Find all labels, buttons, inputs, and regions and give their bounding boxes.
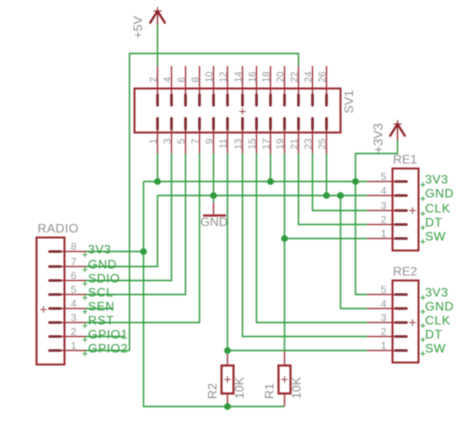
svg-text:1: 1: [71, 341, 77, 352]
svg-text:SEN: SEN: [88, 299, 115, 313]
RADIO pin 8: [50, 250, 87, 253]
svg-text:17: 17: [261, 139, 272, 150]
SV1 pin 18 (top): [270, 66, 272, 105]
wire RE1 CLK net from pin 23: [313, 154, 368, 211]
net label SCL (RADIO): [83, 285, 114, 300]
junction pin1/3V3 rail: [154, 178, 161, 185]
svg-text:4: 4: [381, 186, 387, 197]
wire GPIO25 top rail: [130, 54, 299, 351]
wire pin17 3V3 drop: [270, 154, 272, 182]
svg-text:14: 14: [233, 71, 244, 82]
svg-text:4: 4: [162, 77, 173, 83]
wire pin9 GND drop to ground: [213, 154, 215, 203]
svg-text:GND: GND: [425, 299, 454, 313]
SV1 pin 9 (bottom): [213, 118, 215, 153]
SV1 pin 23 (bottom): [312, 118, 314, 153]
SV1 pin 2 (top): [157, 66, 159, 105]
svg-text:23: 23: [303, 138, 314, 149]
net label DT (RE1): [420, 215, 442, 230]
svg-text:CLK: CLK: [425, 201, 451, 215]
RADIO pin 1: [50, 349, 87, 352]
RADIO pin 5: [50, 293, 87, 296]
SV1 pin 26 (top): [326, 66, 328, 105]
svg-text:5: 5: [381, 285, 387, 296]
svg-text:3: 3: [381, 313, 387, 324]
svg-text:7: 7: [71, 257, 77, 268]
wire RE2 3V3 branch: [356, 182, 368, 295]
wire RE2 DT net from pin 13: [243, 154, 368, 337]
symbol origin cross SV1: [239, 108, 246, 115]
SV1 pin 17 (bottom): [270, 118, 272, 153]
svg-text:3V3: 3V3: [88, 242, 111, 256]
junction pin9/GND rail: [210, 192, 217, 199]
SV1 pin 25 (bottom): [326, 118, 328, 153]
RE1 pin 4: [367, 194, 407, 197]
svg-text:+3V3: +3V3: [370, 123, 385, 153]
svg-text:SW: SW: [425, 229, 446, 243]
wire RE2 CLK net from pin 15: [257, 154, 368, 323]
SV1 pin 7 (bottom): [199, 118, 201, 153]
net label 3V3 (RE1): [420, 172, 448, 187]
svg-text:8: 8: [71, 242, 77, 253]
net label GND (RE2): [420, 299, 454, 314]
svg-text:RE2: RE2: [393, 265, 417, 279]
RE1 pin 1: [367, 237, 407, 240]
SV1 pin 14 (top): [242, 66, 244, 105]
SV1 pin 12 (top): [227, 66, 229, 105]
connector RE2 box: [393, 281, 419, 363]
wire RADIO RST net: [86, 154, 200, 323]
net label RST (RADIO): [83, 313, 115, 328]
svg-text:3: 3: [162, 138, 173, 144]
svg-text:9: 9: [204, 138, 215, 144]
junction pin11/RE2 SW/R2: [224, 347, 231, 354]
RADIO pin 3: [50, 321, 87, 324]
SV1 pin 19 (bottom): [284, 118, 286, 153]
RE2 pin 2: [367, 335, 407, 338]
resistor R2 body: [222, 351, 234, 406]
symbol origin cross R1: [281, 376, 287, 382]
svg-text:16: 16: [247, 71, 258, 82]
wire RADIO SDIO net: [86, 154, 172, 281]
net label 3V3 (RADIO): [83, 242, 112, 257]
svg-text:1: 1: [148, 138, 159, 144]
svg-text:1: 1: [381, 341, 387, 352]
svg-text:10: 10: [204, 71, 215, 82]
junction pin25/GND rail: [323, 192, 330, 199]
RE1 pin 2: [367, 223, 407, 226]
RADIO pin 4: [50, 307, 87, 310]
wire RE2 SW net from pin 11: [227, 154, 229, 351]
RE2 pin 3: [367, 321, 407, 324]
svg-text:6: 6: [176, 77, 187, 83]
svg-text:RST: RST: [88, 313, 114, 327]
SV1 pin 10 (top): [213, 66, 215, 105]
net label CLK (RE2): [420, 313, 450, 328]
wire RADIO SEN stub: [86, 308, 112, 310]
wire +3V3 to 3V3 rail: [356, 141, 398, 182]
wire RE2 SW horizontal: [228, 350, 368, 352]
svg-text:DT: DT: [425, 215, 442, 229]
junction GND rail/RE2 GND: [337, 192, 344, 199]
RE2 pin 5: [367, 293, 407, 296]
svg-text:2: 2: [71, 327, 77, 338]
wire RE1 SW net from pin 19: [284, 154, 286, 352]
wire +5V vertical to pin 2: [157, 25, 159, 67]
svg-text:R2: R2: [206, 383, 220, 399]
svg-text:3V3: 3V3: [425, 285, 448, 299]
junction +3V3/3V3 rail: [352, 178, 359, 185]
svg-text:2: 2: [381, 327, 387, 338]
svg-text:25: 25: [317, 138, 328, 149]
connector RE1 box: [393, 169, 419, 251]
wire pin1 3V3 drop: [157, 154, 159, 182]
svg-text:19: 19: [275, 138, 286, 149]
SV1 pin 5 (bottom): [185, 118, 187, 153]
symbol origin cross RE1: [409, 207, 416, 214]
svg-text:20: 20: [275, 71, 286, 82]
net label 3V3 (RE2): [420, 285, 448, 300]
RE1 pin 5: [367, 180, 407, 183]
net label GPIO1 (RADIO): [83, 327, 129, 342]
power +3V3 symbol P+2: [390, 120, 406, 141]
wire RE1 DT net from pin 21: [299, 154, 368, 225]
svg-text:5: 5: [71, 285, 77, 296]
svg-text:GND: GND: [200, 215, 228, 229]
wire RADIO GPIO1 stub: [86, 336, 124, 338]
SV1 pin 20 (top): [284, 66, 286, 105]
svg-text:3: 3: [71, 313, 77, 324]
symbol origin cross R2: [224, 376, 230, 382]
net label DT (RE2): [420, 327, 442, 342]
connector SV1 box: [135, 89, 341, 133]
svg-text:26: 26: [317, 71, 328, 82]
svg-text:DT: DT: [425, 327, 442, 341]
svg-text:CLK: CLK: [425, 313, 451, 327]
RADIO pin 6: [50, 279, 87, 282]
svg-text:RADIO: RADIO: [38, 221, 79, 235]
wire RE2 GND branch: [341, 196, 368, 309]
SV1 pin 21 (bottom): [298, 118, 300, 153]
svg-text:5: 5: [381, 172, 387, 183]
net label SEN (RADIO): [83, 299, 115, 314]
wire RADIO GPIO2 net: [86, 350, 130, 352]
RADIO pin 2: [50, 335, 87, 338]
SV1 pin 3 (bottom): [171, 118, 173, 153]
junction 3V3 drop/RADIO 3V3: [140, 248, 147, 255]
SV1 pin 4 (top): [171, 66, 173, 105]
RE2 pin 4: [367, 307, 407, 310]
svg-text:+5V: +5V: [131, 15, 145, 38]
svg-text:3: 3: [381, 201, 387, 212]
resistor R1 body: [279, 351, 291, 406]
svg-text:21: 21: [289, 138, 300, 149]
SV1 pin 15 (bottom): [256, 118, 258, 153]
svg-text:12: 12: [218, 72, 229, 83]
svg-text:18: 18: [261, 71, 272, 82]
RADIO pin 7: [50, 265, 87, 268]
SV1 pin 22 (top): [298, 66, 300, 105]
SV1 pin 8 (top): [199, 66, 201, 105]
svg-text:GND: GND: [88, 257, 117, 271]
svg-text:15: 15: [247, 138, 258, 149]
wire 3V3 left drop vertical: [144, 182, 285, 407]
SV1 pin 11 (bottom): [227, 118, 229, 153]
svg-text:4: 4: [71, 299, 77, 310]
svg-text:GND: GND: [425, 186, 454, 200]
svg-text:GPIO1: GPIO1: [88, 327, 128, 341]
svg-text:SCL: SCL: [88, 285, 113, 299]
svg-text:4: 4: [381, 299, 387, 310]
svg-text:SDIO: SDIO: [88, 271, 120, 285]
junction pin17/3V3 rail: [267, 178, 274, 185]
symbol origin cross RE2: [409, 319, 416, 326]
connector RADIO box: [37, 238, 65, 365]
net label SW (RE2): [420, 341, 446, 356]
svg-text:2: 2: [148, 77, 159, 83]
net label GND (RADIO): [83, 257, 117, 272]
RE1 pin 3: [367, 209, 407, 212]
svg-text:22: 22: [289, 72, 300, 83]
svg-text:RE1: RE1: [393, 153, 417, 167]
SV1 pin 13 (bottom): [242, 118, 244, 153]
svg-text:3V3: 3V3: [425, 172, 448, 186]
svg-text:5: 5: [176, 138, 187, 144]
SV1 pin 6 (top): [185, 66, 187, 105]
svg-text:SV1: SV1: [342, 90, 356, 114]
svg-text:11: 11: [218, 138, 229, 149]
svg-text:R1: R1: [262, 383, 276, 399]
svg-text:10K: 10K: [289, 376, 303, 399]
svg-text:1: 1: [381, 229, 387, 240]
svg-text:2: 2: [381, 215, 387, 226]
svg-text:SW: SW: [425, 341, 446, 355]
svg-text:10K: 10K: [233, 376, 247, 399]
wire 3V3 rail horizontal: [144, 181, 368, 183]
power +5V symbol P+1: [150, 7, 166, 26]
svg-text:7: 7: [190, 139, 201, 145]
wire pin25 GND drop: [326, 154, 328, 196]
RE2 pin 1: [367, 349, 407, 352]
wire RADIO 3V3 net: [86, 251, 144, 253]
svg-text:GPIO2: GPIO2: [88, 341, 128, 355]
wire GND rail horizontal: [158, 195, 368, 197]
SV1 pin 16 (top): [256, 66, 258, 105]
junction pin19/RE1 SW/R1: [281, 235, 288, 242]
wire RADIO SCL net: [86, 154, 186, 295]
net label GPIO2 (RADIO): [83, 341, 129, 356]
wire RE1 SW horizontal: [285, 238, 368, 240]
svg-text:8: 8: [190, 77, 201, 83]
SV1 pin 24 (top): [312, 66, 314, 105]
net label SW (RE1): [420, 229, 446, 244]
net label CLK (RE1): [420, 201, 450, 216]
symbol origin cross RADIO: [40, 306, 47, 313]
wire RADIO GND net: [86, 196, 158, 267]
svg-text:6: 6: [71, 271, 77, 282]
junction R2/3V3 bottom rail: [224, 403, 231, 410]
svg-text:24: 24: [303, 71, 314, 82]
net label GND (RE1): [420, 186, 454, 201]
net label SDIO (RADIO): [83, 271, 121, 286]
svg-text:13: 13: [233, 138, 244, 149]
SV1 pin 1 (bottom): [157, 118, 159, 153]
ground symbol GND1: [203, 203, 226, 216]
